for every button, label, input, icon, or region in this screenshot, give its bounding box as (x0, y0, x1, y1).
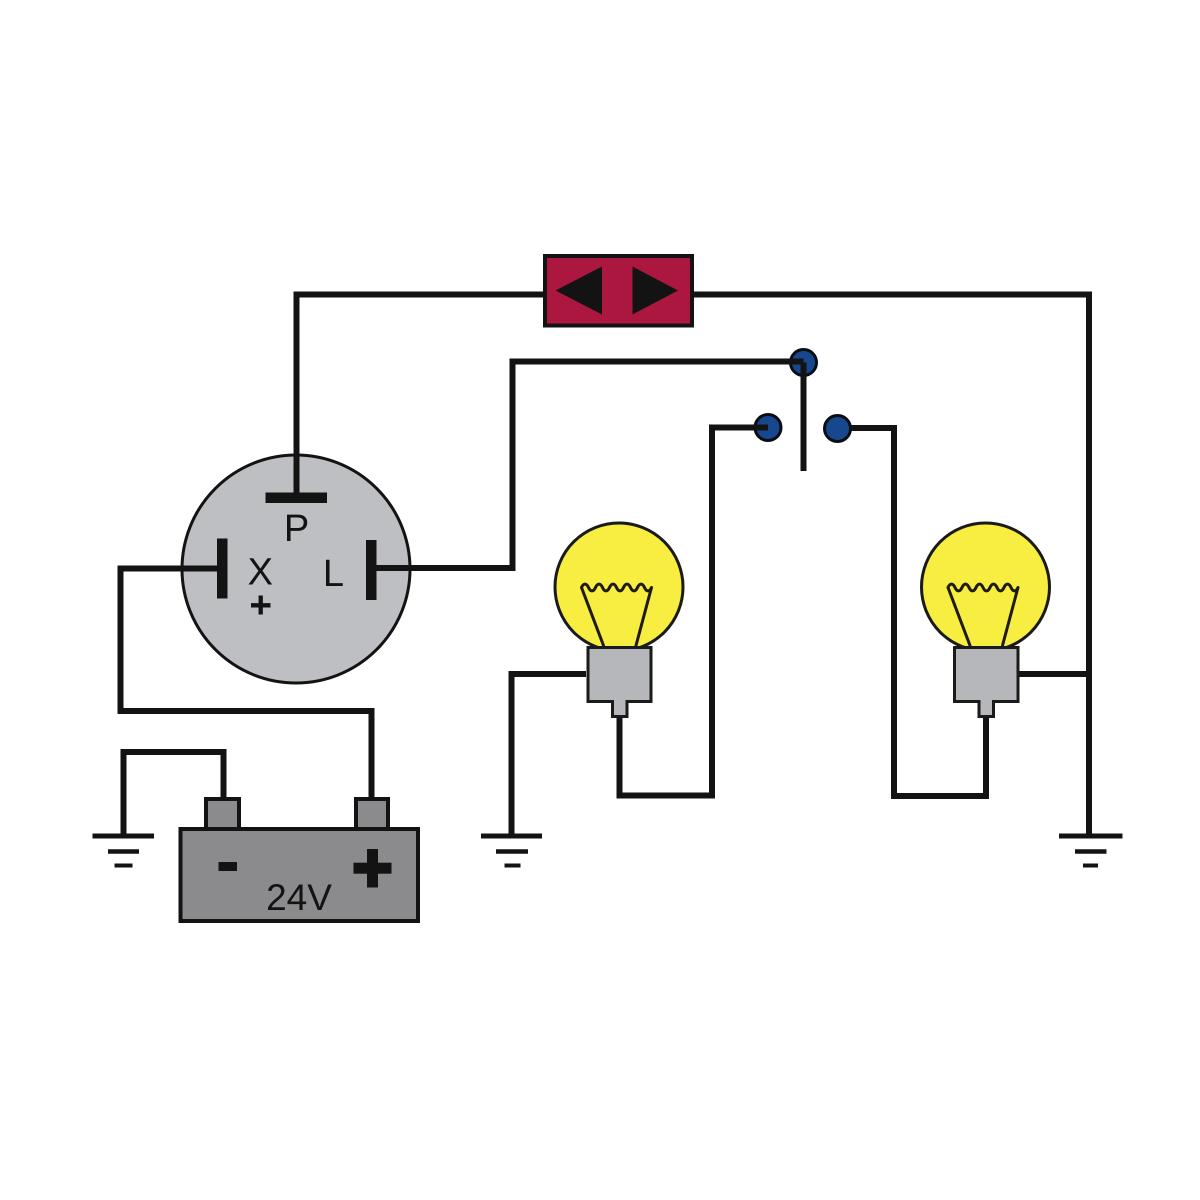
wire: lamp2 base to right rail (1019, 671, 1089, 677)
wire: relay X to battery plus (121, 569, 372, 798)
relay label P (284, 508, 309, 550)
svg-text:X: X (248, 552, 273, 594)
relay label L (323, 553, 344, 595)
relay terminal L bar (366, 540, 377, 600)
wire: relay L up to switch top contact (376, 362, 804, 569)
wire: switch right contact to lamp2 tip (850, 428, 987, 796)
battery right tab (356, 799, 388, 831)
switch left contact (755, 415, 781, 441)
relay terminal X bar (217, 539, 228, 599)
indicator right arrow (633, 267, 679, 315)
ground middle (lamp1) (481, 836, 542, 866)
lamp bulb 1 glass (555, 523, 683, 651)
wire: battery minus to left ground (124, 752, 224, 836)
lamp 2 base (955, 648, 1019, 717)
wire: switch left contact to lamp1 tip (620, 428, 769, 796)
battery plus mark (354, 849, 392, 888)
battery left tab (206, 799, 239, 831)
lamp bulb 2 glass (922, 523, 1050, 651)
svg-text:24V: 24V (266, 877, 332, 918)
battery minus mark (219, 862, 238, 871)
wire: lamp1 base feed down to middle ground (512, 674, 587, 836)
battery label 24V (266, 877, 332, 918)
lamp 1 filament (582, 584, 652, 645)
svg-text:L: L (323, 553, 344, 595)
lamp 2 filament (948, 584, 1018, 645)
switch top contact (791, 350, 817, 376)
wire: switch pole (801, 363, 807, 472)
ground left (battery) (93, 836, 155, 866)
relay terminal P bar (266, 493, 328, 504)
lamp 1 base (588, 648, 651, 717)
battery 24V body (181, 829, 419, 921)
indicator left arrow (556, 267, 603, 315)
wire: indicator right down to right ground rail (694, 295, 1089, 837)
wire: indicator left to relay P (297, 295, 544, 501)
flasher relay U1 body (182, 455, 410, 683)
ground right (rail) (1059, 836, 1123, 866)
relay plus mark (251, 596, 271, 615)
switch right contact (825, 416, 851, 442)
svg-text:P: P (284, 508, 309, 550)
indicator lamp box (545, 256, 692, 326)
relay label X (248, 552, 273, 594)
